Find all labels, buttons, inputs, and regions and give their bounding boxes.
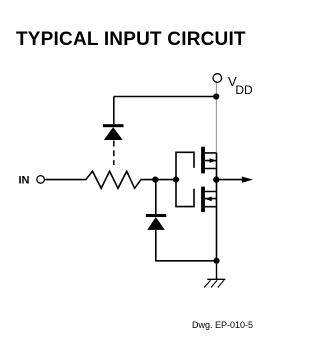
svg-text:IN: IN [19,174,30,186]
svg-text:DD: DD [235,83,253,97]
